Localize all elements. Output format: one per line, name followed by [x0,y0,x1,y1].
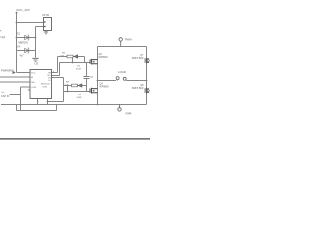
junction bus CAP [20,104,22,106]
wire IC pin CAP [10,87,31,111]
wire IC HO pin [52,57,58,73]
junction right rail load [146,80,148,82]
IC U3 box [30,70,52,99]
svg-text:SM6T BUZ: SM6T BUZ [132,87,144,90]
svg-text:U5 05: U5 05 [42,13,49,17]
capacitor C7 leads [86,63,88,86]
transistor Q2 lower left MOSFET [90,88,98,94]
svg-text:PWR-: PWR- [126,112,133,115]
wire lower gate line [64,86,91,92]
capacitor C4 [25,48,29,53]
svg-text:/SD: /SD [31,82,35,84]
transistor Q4 lower right MOSFET [145,88,149,94]
junction upper gate [72,62,74,64]
wire IC pin VCC [17,72,31,74]
junction D1 right [35,37,37,39]
label arrow [13,71,16,74]
wire rung C4 [17,50,36,52]
svg-text:F high: F high [0,36,6,39]
wire right rail [146,47,148,105]
svg-text:COM: COM [31,87,36,89]
svg-text:Cur: Cur [1,91,5,94]
svg-text:LOAD: LOAD [118,70,126,74]
wire VCC to U5 [17,22,44,24]
capacitor C7 plates [84,76,90,78]
transistor Q3 upper right MOSFET [145,58,149,64]
wire U5 pin2 to gnd rail [36,27,44,58]
wire rung D1 [17,37,36,39]
junction D1 left [16,37,18,39]
wire IC pin IN [0,76,30,78]
svg-text:IRS2104: IRS2104 [41,83,50,85]
junction COM loop [47,101,49,103]
wire upper resistor line [58,57,85,63]
junction phase node [97,80,99,82]
svg-text:IRF9540: IRF9540 [100,85,110,88]
wire load left [98,80,117,82]
pin stub row5 [28,89,30,91]
svg-text:SM6T BUZ: SM6T BUZ [132,57,144,60]
svg-text:MBR20V: MBR20V [19,41,29,44]
svg-text:VCC: VCC [31,72,36,74]
junction VCC tap [16,22,18,24]
svg-text:4u7: 4u7 [20,55,25,58]
svg-text:PWR+: PWR+ [125,38,133,41]
wire load right [126,80,146,82]
wire VCC rail vertical [16,13,18,73]
svg-text:8: 8 [53,71,54,73]
wire top supply rail [98,46,147,48]
sheet bottom border [0,138,150,140]
regulator U5 [44,18,52,32]
svg-text:SO8: SO8 [43,86,48,88]
svg-text:CAP IN: CAP IN [1,95,9,98]
junction bus left rail [97,104,99,106]
pin PWR+ [119,38,122,47]
svg-text:27R: 27R [60,55,64,57]
svg-text:4148: 4148 [77,97,83,99]
diode D1 [25,35,29,40]
wire lower resistor line [64,86,87,92]
diode upper 1N4148 [74,55,78,58]
resistor R upper 27R [67,55,73,58]
svg-text:PWM(FM): PWM(FM) [1,68,14,72]
svg-text:LO: LO [48,80,51,82]
wire lower loop [17,105,57,111]
U3 pin names [31,71,54,103]
wire bottom bus [1,104,147,106]
wire upper gate line [60,57,91,63]
resistor R lower 27R [72,84,78,87]
wire IC VB pin [52,63,60,76]
svg-text:VCC_12V: VCC_12V [16,8,31,12]
svg-text:4148: 4148 [76,68,82,70]
wire IC pin SD [0,81,30,83]
svg-text:U3: U3 [35,62,39,66]
node VCC_12V anchor [16,12,18,14]
svg-text:1N: 1N [77,66,80,68]
ground under U5 [44,32,48,34]
diode lower 1N4148 [78,84,82,87]
wire IC VS pin [48,78,64,102]
wire IC bottom pins [38,99,48,105]
transistor Q1 upper left MOSFET [90,59,97,65]
svg-text:IRF9540: IRF9540 [99,56,109,59]
ground symbol main [32,58,38,61]
svg-text:27R: 27R [65,84,69,86]
pin PWR- [118,105,121,112]
wire left bridge rail [97,47,99,105]
junction lower gate [67,91,69,93]
